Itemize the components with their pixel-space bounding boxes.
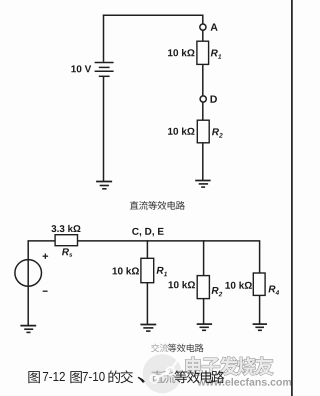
resistor RS series — [55, 235, 77, 246]
wire branch 3 upper — [259, 240, 261, 273]
wire node D to R2 — [202, 102, 204, 120]
wire branch 1 lower — [146, 283, 148, 324]
value label 3.3 kOhm — [51, 225, 80, 232]
value label 10 kOhm (R1 bottom) — [113, 267, 139, 274]
value label 10 kOhm (R2 bottom) — [169, 281, 195, 288]
wire battery bottom lead — [103, 76, 105, 181]
resistor R1 (top circuit) — [197, 41, 209, 64]
figure caption part 1 — [28, 370, 175, 383]
ref label R1 — [211, 50, 221, 59]
wire source lead vertical — [27, 240, 29, 325]
node A terminal — [200, 24, 206, 30]
resistor R2 (top circuit) — [197, 120, 209, 143]
battery V1 — [95, 63, 114, 77]
node label A — [211, 23, 218, 30]
ref label R1 bottom — [157, 267, 167, 276]
wire rail to node A — [202, 15, 204, 24]
watermark url — [197, 378, 291, 386]
value label 10 kOhm (R4) — [225, 281, 251, 288]
polarity minus — [43, 290, 48, 292]
node label C, D, E — [132, 228, 163, 237]
watermark brand text — [186, 357, 274, 375]
caption AC equivalent circuit — [151, 344, 204, 353]
scan border right edge — [291, 0, 293, 396]
wire top rail battery to node A — [103, 14, 203, 16]
signal source VS — [15, 260, 42, 287]
resistor R2 (bottom circuit) — [197, 276, 209, 299]
ground (branch 1) — [140, 325, 156, 332]
resistor R1 (bottom circuit) — [141, 258, 154, 282]
wire branch 3 lower — [259, 295, 261, 323]
wire node A to R1 — [202, 30, 204, 41]
watermark logo — [143, 354, 182, 393]
node label D — [211, 95, 217, 102]
ground (R2 branch) — [195, 181, 210, 188]
wire battery top lead — [103, 15, 105, 62]
ref label R2 bottom — [212, 287, 223, 296]
value label 10 kOhm (R2 top) — [168, 127, 194, 134]
caption DC equivalent circuit — [130, 201, 185, 210]
figure caption part 2 — [174, 370, 224, 383]
ref label R4 — [268, 286, 279, 295]
wire branch 2 upper — [203, 240, 205, 275]
resistor R4 — [253, 273, 265, 295]
wire R2 to ground — [202, 143, 204, 180]
value label 10 V — [71, 65, 91, 72]
wire branch 1 upper — [146, 240, 148, 258]
ground (battery) — [96, 182, 112, 189]
ground (source) — [20, 326, 36, 333]
wire R1 to node D — [202, 64, 204, 96]
wire node rail C D E — [28, 240, 259, 242]
ref label R2 — [212, 128, 223, 137]
node D terminal — [200, 96, 206, 102]
ground (branch 3) — [253, 324, 267, 330]
ref label Rs — [62, 248, 72, 256]
ground (branch 2) — [197, 324, 212, 330]
value label 10 kOhm (R1 top) — [168, 49, 194, 56]
wire branch 2 lower — [203, 299, 205, 324]
polarity plus — [43, 254, 49, 259]
